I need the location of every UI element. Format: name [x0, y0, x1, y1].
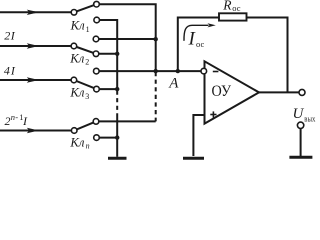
svg-text:U: U: [293, 106, 305, 122]
svg-text:Кл: Кл: [69, 51, 85, 65]
svg-text:-: -: [15, 112, 18, 122]
svg-text:Кл: Кл: [69, 135, 85, 149]
svg-text:n: n: [86, 142, 90, 151]
svg-text:A: A: [168, 75, 179, 91]
svg-text:3: 3: [85, 92, 89, 101]
svg-text:вых: вых: [304, 114, 315, 123]
svg-text:ос: ос: [232, 3, 240, 13]
svg-text:2I: 2I: [4, 29, 16, 43]
svg-text:2: 2: [85, 58, 89, 67]
svg-text:Кл: Кл: [70, 19, 86, 33]
svg-text:R: R: [222, 0, 232, 13]
svg-text:ОУ: ОУ: [212, 83, 232, 100]
svg-text:ос: ос: [196, 39, 204, 49]
svg-text:Кл: Кл: [69, 86, 85, 100]
svg-text:1: 1: [86, 25, 90, 34]
svg-text:4I: 4I: [4, 63, 16, 77]
svg-text:2: 2: [5, 114, 11, 128]
